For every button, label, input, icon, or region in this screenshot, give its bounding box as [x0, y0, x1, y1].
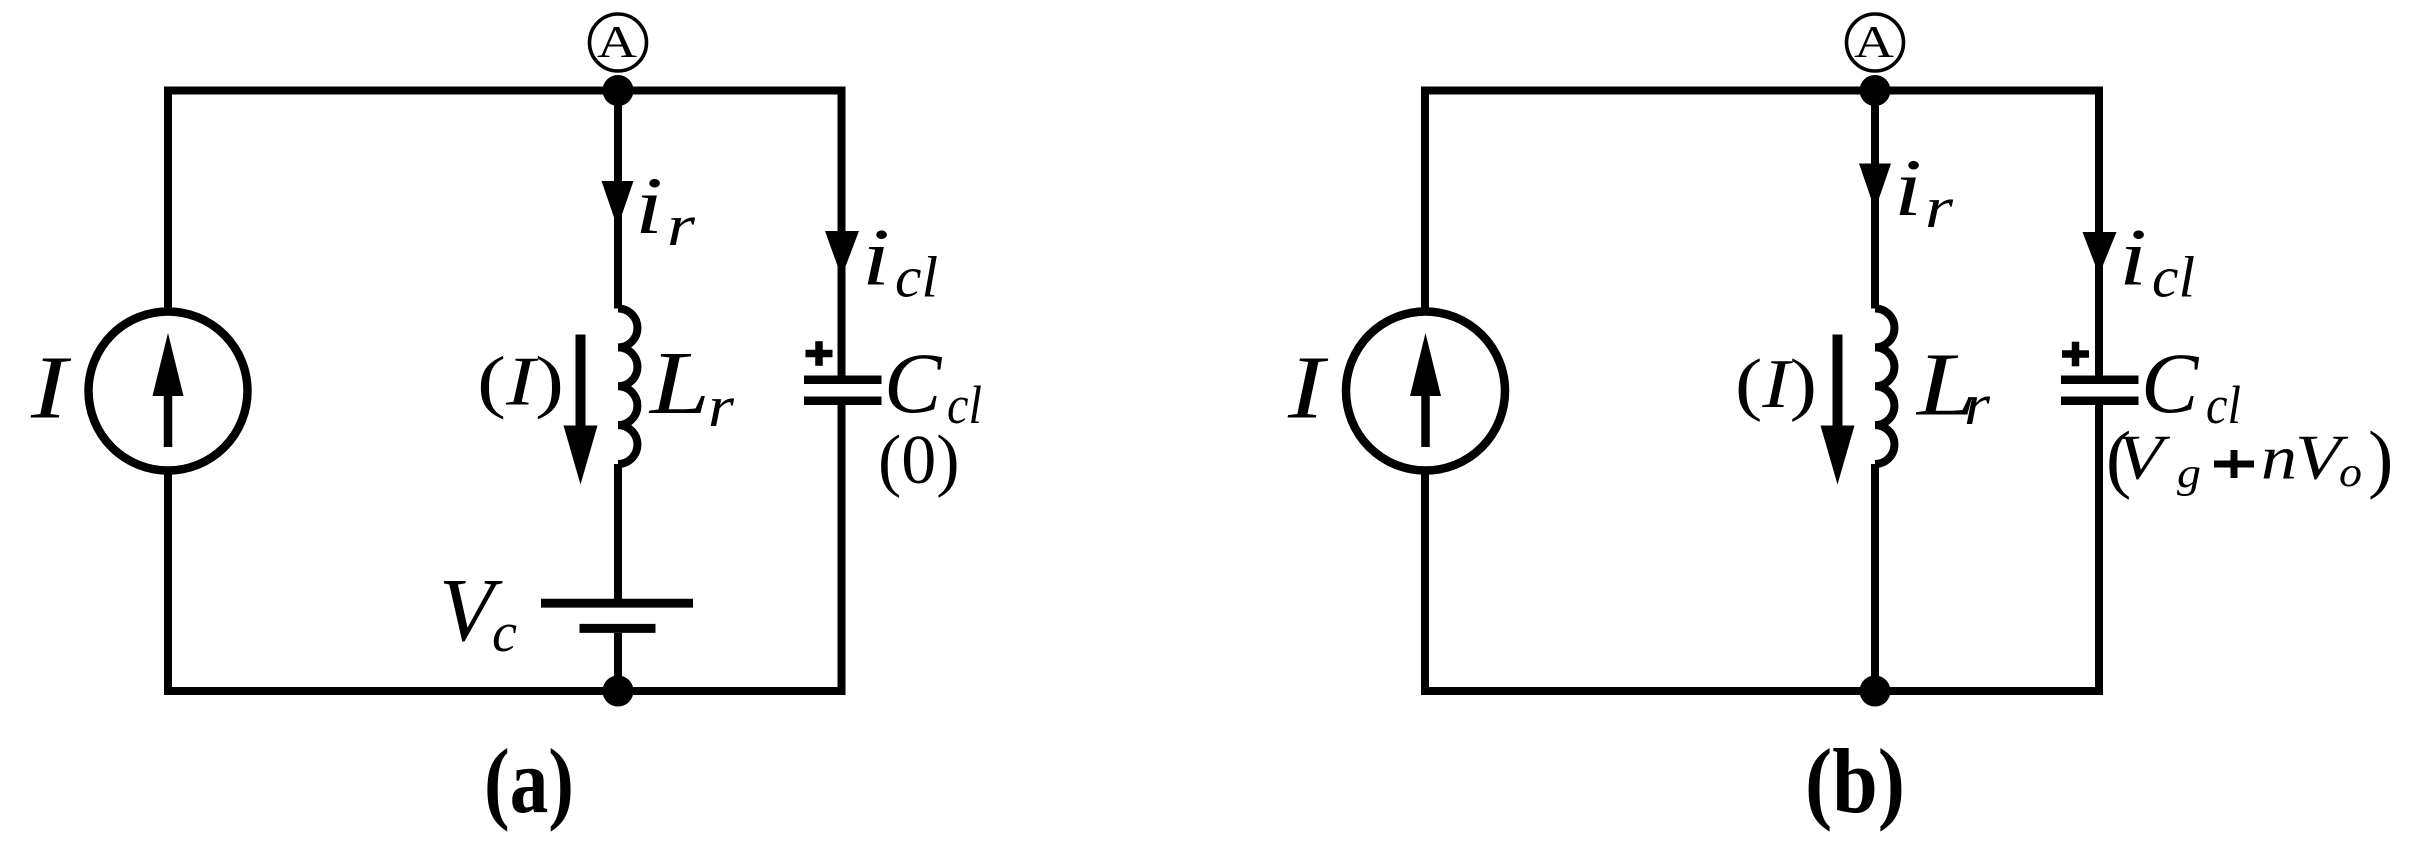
wire lower loop (b): right-bottom-left [1425, 404, 2099, 691]
svg-text:i: i [862, 212, 890, 303]
node A circle (a) [590, 14, 647, 71]
battery Vc long plate (a) [541, 599, 693, 608]
arrowhead i_cl (a) [825, 231, 859, 277]
svg-text:(b): (b) [1805, 730, 1905, 832]
wire middle branch upper (b) [1871, 91, 1879, 309]
svg-text:V: V [2117, 423, 2171, 493]
svg-text:L: L [648, 334, 710, 433]
capacitor Ccl plus sign (a) [806, 350, 833, 358]
svg-text:o: o [2339, 450, 2362, 496]
wire lower loop (a): right-bottom-left [168, 404, 842, 691]
junction dot bottom (b) [1860, 676, 1891, 707]
svg-text:): ) [2368, 417, 2393, 501]
svg-text:r: r [667, 193, 696, 258]
capacitor Ccl top plate (b) [2061, 376, 2139, 385]
svg-text:c: c [492, 602, 517, 664]
svg-text:r: r [1964, 372, 1990, 437]
svg-text:i: i [635, 160, 663, 251]
arrowhead i_cl (b) [2083, 232, 2117, 275]
arrow (I) arrowhead (a) [564, 426, 598, 485]
capacitor Ccl bottom plate (a) [804, 397, 882, 406]
arrowhead i_r (a) [602, 181, 634, 228]
wire upper loop (b): left-top-right [1425, 91, 2099, 377]
svg-text:i: i [1894, 142, 1922, 233]
arrow (I) beside inductor shaft (a) [576, 335, 586, 427]
svg-text:(I): (I) [477, 344, 564, 421]
capacitor Ccl top plate (a) [804, 376, 882, 385]
inductor Lr (b) [1875, 309, 1894, 465]
svg-text:cl: cl [2152, 245, 2195, 310]
svg-text:I: I [1287, 339, 1329, 438]
current source arrow shaft (a) [164, 396, 173, 447]
svg-text:I: I [30, 339, 72, 438]
current source I circle (b) [1346, 312, 1505, 471]
svg-text:C: C [2141, 335, 2200, 431]
junction dot top (a) [603, 75, 634, 106]
svg-text:g: g [2177, 451, 2201, 497]
svg-text:n: n [2261, 425, 2297, 493]
current source arrowhead (b) [1410, 333, 1441, 396]
wire middle branch below battery (a) [614, 633, 622, 691]
arrow (I) arrowhead (b) [1821, 426, 1855, 485]
svg-text:(a): (a) [484, 730, 574, 832]
current source arrowhead (a) [153, 333, 184, 396]
svg-text:r: r [708, 374, 734, 439]
current source I circle (a) [89, 312, 248, 471]
capacitor Ccl plus sign (b) [2062, 350, 2089, 358]
battery Vc short plate (a) [580, 624, 656, 633]
wire middle branch upper (a) [614, 91, 622, 309]
wire middle branch between inductor and battery (a) [614, 464, 622, 599]
svg-text:cl: cl [895, 245, 938, 310]
node A circle (b) [1847, 14, 1904, 71]
wire upper loop (a): left-top-right [168, 91, 842, 377]
junction dot bottom (a) [603, 676, 634, 707]
inductor Lr (a) [618, 309, 637, 465]
svg-text:C: C [884, 335, 943, 431]
svg-text:A: A [1854, 16, 1894, 67]
arrowhead i_r (b) [1859, 164, 1891, 211]
current source arrow shaft (b) [1421, 396, 1430, 447]
svg-text:A: A [597, 16, 637, 67]
junction dot top (b) [1860, 75, 1891, 106]
svg-text:r: r [1925, 175, 1954, 240]
svg-text:(0): (0) [878, 422, 960, 499]
capacitor Ccl bottom plate (b) [2061, 397, 2139, 406]
wire middle branch lower (b) [1871, 464, 1879, 691]
svg-text:(I): (I) [1735, 346, 1817, 423]
svg-text:i: i [2119, 212, 2147, 303]
svg-text:cl: cl [2206, 375, 2241, 435]
arrow (I) beside inductor shaft (b) [1833, 335, 1843, 427]
